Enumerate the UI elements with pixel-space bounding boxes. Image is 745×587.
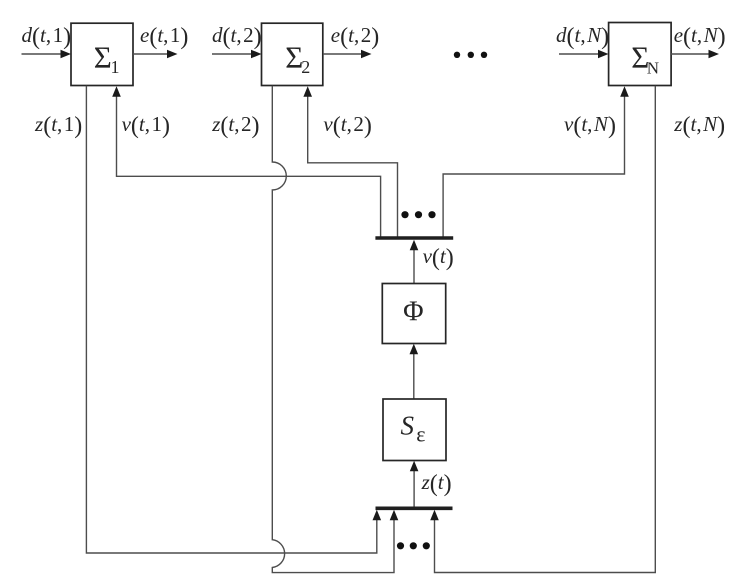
arrow from S_eps up to PHI	[410, 344, 419, 399]
adaptive filter block SIGMA_2	[262, 23, 323, 85]
svg-text:v(t,2): v(t,2)	[323, 112, 371, 139]
svg-text:S: S	[401, 411, 415, 441]
output arrow e(t,1)	[133, 50, 178, 59]
svg-text:z(t,N): z(t,N)	[673, 112, 725, 139]
input arrow d(t,N)	[559, 50, 609, 59]
svg-text:ε: ε	[416, 422, 425, 447]
svg-text:d(t,2): d(t,2)	[212, 23, 262, 50]
arrow z(t) from z bus up to S_eps	[410, 461, 419, 507]
block S_eps (sparsifier)	[383, 399, 446, 461]
svg-text:1: 1	[111, 57, 120, 77]
svg-text:e(t,1): e(t,1)	[140, 23, 188, 50]
svg-text:Φ: Φ	[403, 296, 423, 327]
wire z(t,1) from SIGMA_1 down and into z bus	[86, 86, 381, 553]
svg-text:z(t,1): z(t,1)	[34, 112, 82, 139]
v bus distribution bar	[375, 236, 453, 239]
svg-text:d(t,1): d(t,1)	[22, 23, 72, 50]
wire v(t,N) from v bus up into SIGMA_N	[443, 86, 629, 237]
svg-text:v(t): v(t)	[423, 244, 454, 271]
output arrow e(t,2)	[323, 50, 372, 59]
wire z(t,2) from SIGMA_2 down to z bus with two crossover hops	[272, 86, 398, 573]
svg-text:2: 2	[301, 57, 310, 77]
svg-text:z(t): z(t)	[421, 470, 452, 497]
wire v(t,1) from v bus up into SIGMA_1	[112, 86, 380, 237]
svg-text:v(t,N): v(t,N)	[564, 112, 616, 139]
input arrow d(t,2)	[212, 50, 262, 59]
block PHI	[382, 284, 445, 344]
ellipsis between SIGMA_2 and SIGMA_N	[454, 52, 487, 58]
wire z(t,N) from SIGMA_N down and into z bus	[430, 86, 655, 573]
svg-text:v(t,1): v(t,1)	[122, 112, 170, 139]
svg-text:N: N	[647, 58, 659, 77]
output arrow e(t,N)	[671, 50, 719, 59]
ellipsis below z bus	[397, 542, 430, 549]
input arrow d(t,1)	[22, 50, 72, 59]
arrow v(t) from PHI up to v bus	[410, 240, 419, 283]
z bus combiner bar	[376, 506, 453, 510]
adaptive filter block SIGMA_1	[71, 23, 133, 85]
svg-text:z(t,2): z(t,2)	[211, 112, 259, 139]
svg-text:d(t,N): d(t,N)	[556, 23, 609, 50]
ellipsis above v bus	[401, 211, 435, 218]
adaptive filter block SIGMA_N	[609, 23, 672, 86]
svg-text:e(t,2): e(t,2)	[331, 23, 379, 50]
wire v(t,2) from v bus up into SIGMA_2	[303, 86, 397, 237]
svg-text:e(t,N): e(t,N)	[674, 23, 726, 50]
svg-text:Σ: Σ	[94, 39, 112, 74]
